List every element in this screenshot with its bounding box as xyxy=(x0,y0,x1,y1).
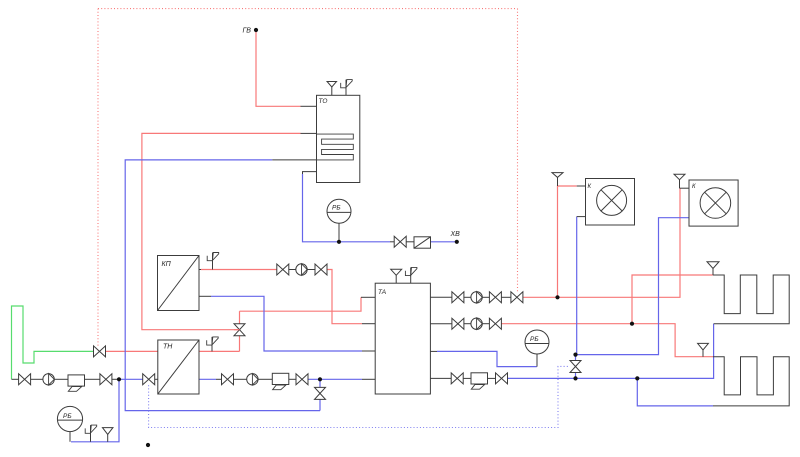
svg-text:ТН: ТН xyxy=(163,344,173,351)
svg-text:ТА: ТА xyxy=(378,289,386,296)
svg-text:РБ: РБ xyxy=(63,413,72,420)
svg-text:КП: КП xyxy=(162,261,172,268)
svg-text:ХВ: ХВ xyxy=(450,231,461,238)
svg-text:ТО: ТО xyxy=(319,98,328,105)
svg-text:ГВ: ГВ xyxy=(243,28,252,35)
svg-text:РБ: РБ xyxy=(530,336,539,343)
svg-text:К: К xyxy=(588,184,592,190)
svg-text:К: К xyxy=(692,184,696,190)
svg-text:РБ: РБ xyxy=(332,205,341,212)
